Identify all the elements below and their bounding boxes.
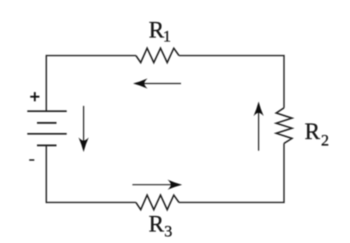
wire: R1 across to top-right corner and down to R2 [179, 56, 284, 108]
svg-text:3: 3 [164, 224, 172, 241]
svg-text:R: R [149, 212, 165, 237]
resistor R1 (zigzag, top wire) [136, 48, 179, 62]
current arrow pointing up (left of R2) [254, 102, 264, 151]
wire: battery positive terminal up and across to R1 [46, 56, 136, 112]
svg-text:1: 1 [163, 29, 171, 46]
current arrow pointing right (above R3) [132, 180, 182, 190]
label R3 [149, 212, 173, 241]
resistor R3 (zigzag, bottom wire) [136, 195, 179, 210]
label R1 [149, 18, 171, 46]
wire: R3 across to bottom-left corner and up to battery negative terminal [46, 145, 136, 202]
current arrow pointing left (under R1) [133, 78, 181, 88]
label R2 [305, 119, 329, 150]
battery B1 (four plates) [27, 111, 66, 145]
current arrow pointing down (right of battery) [79, 106, 89, 152]
wire: R2 down to bottom-right corner and across to R3 [179, 143, 284, 202]
battery plus label [30, 92, 39, 101]
resistor R2 (zigzag, right wire) [276, 108, 292, 143]
svg-text:2: 2 [321, 132, 329, 149]
battery minus label [29, 159, 34, 161]
svg-text:R: R [305, 119, 321, 144]
